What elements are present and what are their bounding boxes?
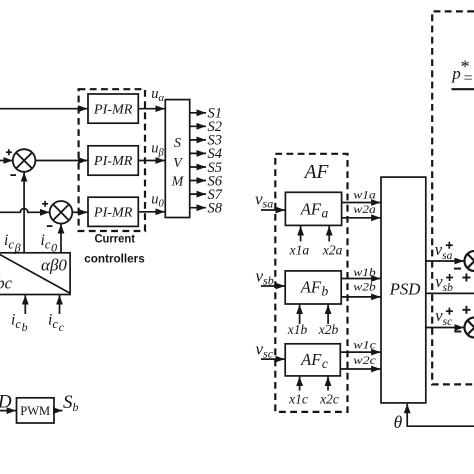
sign + at junction J4 [462, 306, 470, 314]
svg-text:S8: S8 [208, 201, 223, 217]
block AF_a [285, 192, 341, 225]
block PI-MR 1 [88, 94, 138, 123]
svg-text:x1a: x1a [289, 243, 310, 258]
block PI-MR 3 [88, 197, 138, 226]
dashed box AF [275, 154, 347, 412]
svg-text:x1b: x1b [287, 322, 308, 337]
wire v_sc+ PSD to junction J4 [426, 327, 464, 329]
svg-text:u0: u0 [151, 192, 164, 210]
sign + at junction J2 [42, 201, 48, 207]
wire S4 output [190, 152, 206, 154]
dashed box: Current controllers [79, 89, 145, 231]
wire w2b AF_b to PSD [341, 296, 380, 298]
svg-text:w1a: w1a [353, 189, 376, 201]
wire J1 to PI-MR 2 [35, 160, 87, 162]
wire S5 output [190, 166, 206, 168]
svg-text:w2b: w2b [353, 282, 376, 294]
svg-text:p: p [451, 64, 461, 83]
wire v_sb+ PSD output [426, 292, 474, 294]
wire x1a into AF_a [300, 226, 302, 242]
wire v_sa+ PSD to junction J3 [426, 260, 464, 262]
wire theta into PSD [407, 404, 474, 426]
svg-text:vsb: vsb [256, 267, 274, 288]
svg-text:AFc: AFc [300, 350, 328, 371]
wire S1 output [190, 112, 206, 114]
wire w1b AF_b to PSD [341, 278, 380, 280]
transformation block abc to alphabeta0 [0, 249, 70, 294]
wire u_alpha PI-MR1 to SVM [138, 108, 165, 110]
wire x1b into AF_b [299, 305, 301, 324]
wire S6 output [190, 180, 206, 182]
svg-text:PI-MR: PI-MR [93, 205, 133, 220]
svg-text:abc: abc [0, 274, 13, 293]
wire S3 output [190, 139, 206, 141]
wire x1c into AF_c [299, 377, 301, 391]
svg-text:x2a: x2a [322, 243, 343, 258]
svg-text:x2b: x2b [318, 322, 339, 337]
wire x2a into AF_a [328, 226, 330, 242]
svg-text:PI-MR: PI-MR [93, 101, 133, 116]
wire w1c AF_c to PSD [340, 351, 380, 353]
svg-text:w1b: w1b [353, 267, 376, 279]
svg-text:vsc: vsc [256, 340, 274, 361]
sign - at junction J2 [47, 225, 53, 227]
svg-text:AFb: AFb [300, 278, 329, 299]
svg-text:w2a: w2a [353, 204, 376, 216]
sign + near junction of phase b [462, 274, 470, 282]
block PI-MR 2 [88, 146, 138, 175]
wire i_c_0 from abc/alphabeta0 block up to J2 [60, 224, 62, 253]
sign - at junction J1 [10, 174, 16, 176]
wire w2c AF_c to PSD [340, 368, 380, 370]
wire i_c_c into transformation block [59, 295, 61, 314]
sign - at junction J3 [454, 268, 461, 270]
svg-text:αβ0: αβ0 [41, 255, 67, 274]
svg-text:icβ: icβ [4, 232, 21, 255]
wire i_c_b into transformation block [24, 295, 26, 314]
svg-text:ic0: ic0 [41, 232, 58, 255]
wire reference into J2 with hop over i_c_beta line [0, 209, 50, 213]
svg-text:V: V [173, 156, 183, 171]
svg-text:controllers: controllers [84, 252, 145, 266]
svg-text:M: M [171, 174, 185, 189]
svg-text:uα: uα [151, 86, 164, 104]
wire reference into J1 [0, 160, 13, 162]
wire J2 to PI-MR 3 [72, 211, 87, 213]
svg-text:D: D [0, 392, 12, 413]
dashed box top right (p* computation) [432, 11, 474, 384]
sign - at junction J4 [454, 331, 461, 333]
svg-text:θ: θ [394, 412, 403, 432]
wire input i_c_alpha into PI-MR block 1 [0, 108, 88, 110]
svg-text:uβ: uβ [151, 141, 164, 159]
svg-text:Current: Current [94, 232, 135, 246]
block PSD [381, 177, 426, 403]
svg-text:icc: icc [48, 312, 65, 335]
wire u_beta PI-MR2 to SVM [138, 160, 165, 162]
svg-text:icb: icb [11, 312, 28, 335]
wire PWM output S_b [54, 410, 63, 412]
sign + at junction J1 [6, 149, 12, 155]
wire D into PWM [0, 410, 16, 412]
summing junction J3 (phase a, at right edge) [465, 251, 474, 271]
svg-text:w2c: w2c [353, 355, 376, 367]
wire v_sb into AF_b [261, 285, 285, 287]
svg-text:PI-MR: PI-MR [93, 153, 133, 168]
wire v_sa into AF_a [261, 209, 285, 211]
svg-text:x2c: x2c [319, 392, 339, 407]
svg-text:AFa: AFa [300, 200, 329, 221]
wire i_c_beta from abc/alphabeta0 block up to J1 [23, 172, 25, 253]
wire S7 output [190, 193, 206, 195]
summing junction J1 (beta channel) [13, 149, 36, 172]
svg-text:vsa: vsa [255, 190, 273, 211]
svg-text:Sb: Sb [63, 392, 79, 414]
wire v_sc into AF_c [261, 358, 285, 360]
svg-text:PSD: PSD [389, 280, 421, 299]
fraction bar of p* expression [452, 88, 474, 90]
svg-text:x1c: x1c [288, 392, 308, 407]
svg-text:S: S [174, 136, 181, 151]
block PWM [17, 398, 55, 423]
wire u_0 PI-MR3 to SVM [138, 211, 165, 213]
block SVM [165, 100, 189, 218]
svg-text:PWM: PWM [20, 404, 50, 418]
block AF_c [285, 344, 340, 376]
summing junction J4 (phase c, at right edge) [465, 318, 474, 338]
svg-text:w1c: w1c [353, 340, 376, 352]
summing junction J2 (zero channel) [50, 201, 73, 224]
wire w2a AF_a to PSD [342, 217, 381, 219]
svg-text:AF: AF [303, 162, 330, 183]
svg-text:=: = [464, 70, 473, 87]
block AF_b [285, 271, 341, 304]
wire w1a AF_a to PSD [342, 202, 381, 204]
wire S2 output [190, 125, 206, 127]
wire x2c into AF_c [327, 377, 329, 391]
wire S8 output [190, 207, 206, 209]
wire x2b into AF_b [327, 305, 329, 324]
